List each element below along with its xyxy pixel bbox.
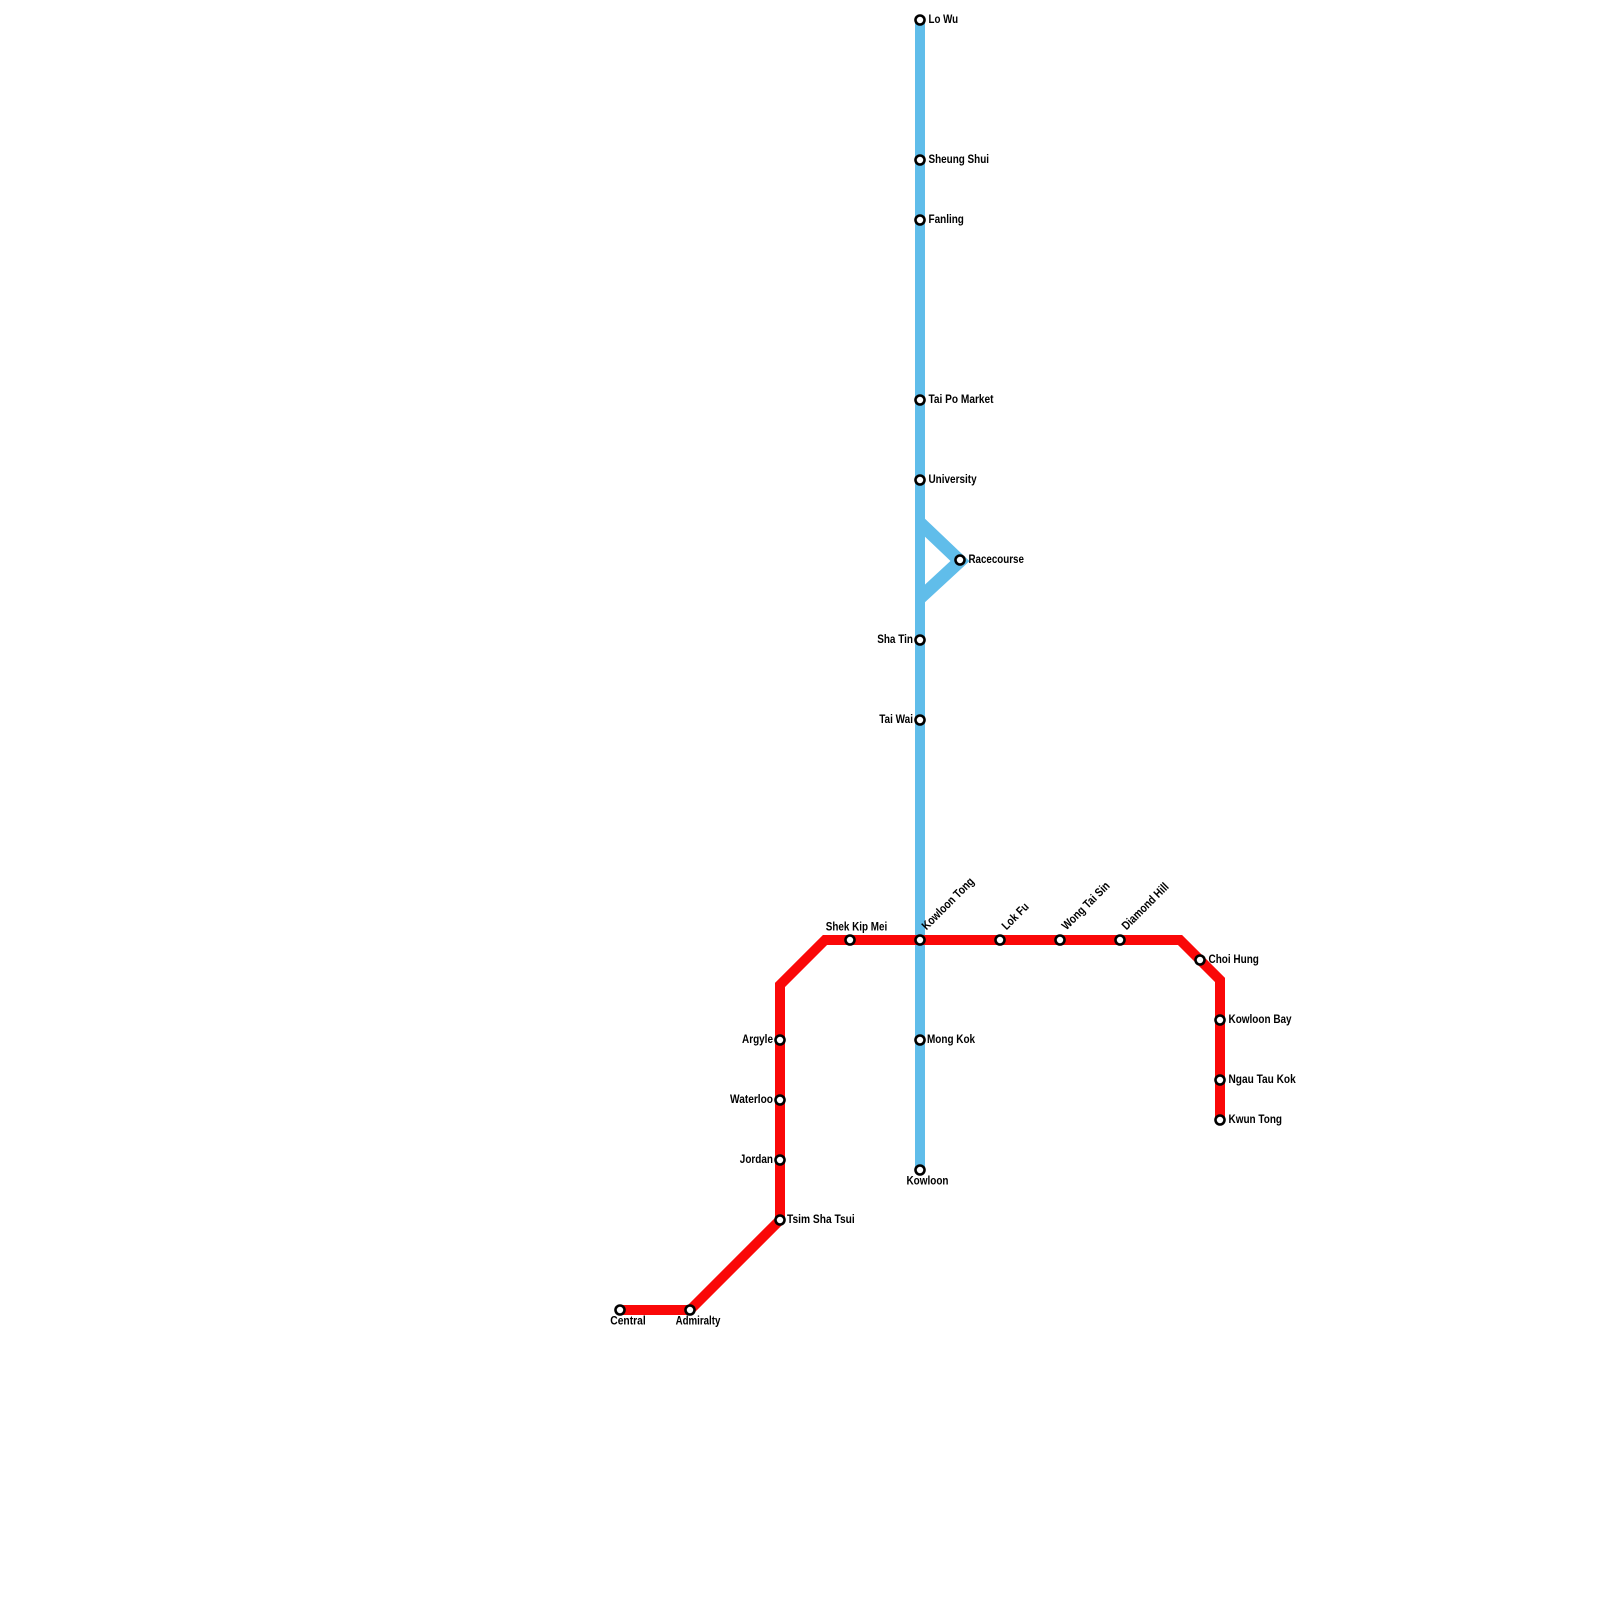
station Kowloon Tong — [916, 936, 925, 945]
red Kwun Tong line — [620, 940, 1220, 1310]
station Tai Po Market — [916, 396, 925, 405]
station Racecourse — [956, 556, 965, 565]
svg-text:Racecourse: Racecourse — [969, 552, 1025, 566]
svg-text:Admiralty: Admiralty — [676, 1314, 721, 1328]
station Kowloon — [916, 1166, 925, 1175]
svg-text:Jordan: Jordan — [740, 1152, 773, 1166]
svg-text:Sheung Shui: Sheung Shui — [929, 152, 990, 166]
station Waterloo — [776, 1096, 785, 1105]
svg-text:Kwun Tong: Kwun Tong — [1229, 1112, 1283, 1126]
station Wong Tai Sin — [1056, 936, 1065, 945]
station Shek Kip Mei — [846, 936, 855, 945]
svg-text:Shek Kip Mei: Shek Kip Mei — [826, 920, 888, 934]
station Mong Kok — [916, 1036, 925, 1045]
svg-text:Kowloon: Kowloon — [907, 1174, 949, 1188]
station Admiralty — [686, 1306, 695, 1315]
station Ngau Tau Kok — [1216, 1076, 1225, 1085]
station Fanling — [916, 216, 925, 225]
station Diamond Hill — [1116, 936, 1125, 945]
station Sheung Shui — [916, 156, 925, 165]
svg-text:Lo Wu: Lo Wu — [929, 12, 959, 26]
svg-text:Argyle: Argyle — [742, 1032, 773, 1046]
station Central — [616, 1306, 625, 1315]
svg-text:Kowloon Tong: Kowloon Tong — [919, 874, 977, 932]
svg-text:Central: Central — [610, 1314, 645, 1328]
svg-text:University: University — [929, 472, 977, 486]
svg-text:Lok Fu: Lok Fu — [999, 900, 1032, 933]
svg-text:Ngau Tau Kok: Ngau Tau Kok — [1229, 1072, 1296, 1086]
station Tsim Sha Tsui — [776, 1216, 785, 1225]
station Tai Wai — [916, 716, 925, 725]
station Sha Tin — [916, 636, 925, 645]
svg-text:Kowloon Bay: Kowloon Bay — [1229, 1012, 1292, 1026]
station Jordan — [776, 1156, 785, 1165]
station Lo Wu — [916, 16, 925, 25]
station Choi Hung — [1196, 956, 1205, 965]
station Kwun Tong — [1216, 1116, 1225, 1125]
station University — [916, 476, 925, 485]
station Kowloon Bay — [1216, 1016, 1225, 1025]
svg-text:Mong Kok: Mong Kok — [927, 1032, 975, 1046]
blue East Rail line — [915, 20, 925, 1170]
svg-text:Waterloo: Waterloo — [730, 1092, 773, 1106]
svg-text:Fanling: Fanling — [929, 212, 964, 226]
svg-text:Choi Hung: Choi Hung — [1209, 952, 1259, 966]
blue Racecourse branch — [920, 523, 960, 598]
station Argyle — [776, 1036, 785, 1045]
svg-text:Sha Tin: Sha Tin — [877, 632, 913, 646]
svg-text:Tai Wai: Tai Wai — [879, 712, 913, 726]
svg-text:Diamond Hill: Diamond Hill — [1119, 880, 1172, 933]
svg-text:Wong Tai Sin: Wong Tai Sin — [1059, 879, 1113, 933]
svg-text:Tsim Sha Tsui: Tsim Sha Tsui — [787, 1212, 855, 1226]
station Lok Fu — [996, 936, 1005, 945]
svg-text:Tai Po Market: Tai Po Market — [929, 392, 994, 406]
